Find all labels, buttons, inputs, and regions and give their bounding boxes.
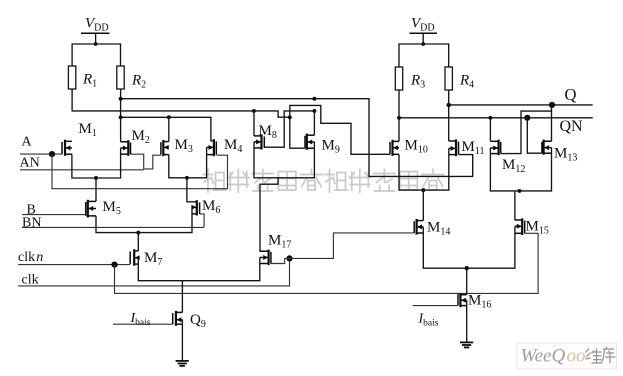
node: bus to M7 drain <box>136 231 140 235</box>
node: QN at R3/M10 <box>397 116 401 120</box>
wire: bus down to M7 drain <box>137 233 139 251</box>
svg-text:A: A <box>22 135 33 150</box>
resistor R2 <box>117 66 124 89</box>
transistor M17 <box>260 250 271 266</box>
transistor M2 <box>121 140 131 156</box>
wire: VDD2 stem <box>422 33 424 44</box>
wire: Ibais lead to Q9 gate <box>113 323 173 325</box>
wire: node L2 (M2 drain line) to M4 drain <box>121 117 214 141</box>
transistor M5 <box>86 200 96 218</box>
wire: M12/M13 source bus <box>490 148 551 191</box>
svg-text:BN: BN <box>22 216 41 231</box>
wire: Q9 drain riser <box>181 281 183 313</box>
wire: tail down to M6 drain <box>187 178 197 202</box>
wire: input B line to M5 gate <box>22 214 86 216</box>
wire: rail to R4 <box>448 43 450 67</box>
wire: M13 gate route to QN node <box>527 118 542 153</box>
wire: output Q line <box>449 104 593 106</box>
wire: M7/M17 source bus to Q9 <box>138 258 259 281</box>
transistor M3 <box>161 140 169 156</box>
wire: input AN line <box>20 169 144 171</box>
wire: BN riser to M6 gate lead <box>200 214 205 228</box>
resistor R3 <box>395 67 402 90</box>
wire: VDD1 rail <box>72 43 120 45</box>
wire: R3 down to M10 drain (QN node riser) <box>398 90 400 141</box>
transistor M7 <box>130 249 139 265</box>
wire: R1 to node L1 <box>71 89 73 112</box>
svg-text:clk: clk <box>18 250 35 265</box>
power VDD (right) <box>410 16 438 34</box>
node: M8 gate / M9 drain tie <box>312 109 316 113</box>
wire: R2 down to M2 drain (vertical through node dots) <box>120 89 122 142</box>
wire: R2 node line to second stage (M11 gate route) <box>121 99 473 177</box>
node: tail to M14 <box>421 188 425 192</box>
transistor M6 <box>191 200 199 215</box>
wire: output QN line <box>399 117 593 119</box>
transistor M12 <box>490 140 500 156</box>
wire: bus down to M17 drain (jog) <box>260 178 278 251</box>
node: VDD2 rail junction <box>421 42 425 46</box>
transistor M13 <box>542 140 552 155</box>
wire: VDD2 rail <box>399 43 449 45</box>
transistor M10 <box>390 140 399 156</box>
wire: M12 drain riser to QN <box>489 118 491 142</box>
svg-text:WeeQ: WeeQ <box>521 346 566 367</box>
wire: M10/M11 tail bus <box>399 148 449 190</box>
transistor M1 <box>62 140 72 156</box>
wire: M14/M15 source bus <box>423 226 515 268</box>
node: M9 drain / M8 gate tie on R2 line <box>312 97 316 101</box>
transistor M8 <box>254 134 264 149</box>
wire: rail to R3 <box>398 43 400 67</box>
transistor M14 <box>414 219 423 235</box>
wire: AN branch to M3 gate <box>144 155 161 169</box>
node: R2 line start <box>119 97 123 101</box>
svg-text:n: n <box>36 250 43 265</box>
transistor M11 <box>449 139 459 156</box>
wire: M8 drain riser <box>253 111 255 136</box>
transistor Q9 <box>173 311 183 326</box>
wire: M9 drain riser <box>313 111 315 135</box>
wire: tail down to M14 drain <box>422 190 424 221</box>
wire: clk to M14 gate <box>290 233 415 259</box>
svg-text:oo: oo <box>567 346 586 367</box>
svg-text:clk: clk <box>22 273 39 288</box>
wire: bus down to M16 drain <box>466 268 468 295</box>
node: A branch <box>49 151 55 157</box>
wire: clkn line to M7 gate <box>18 264 130 266</box>
node: Q to M13 drain <box>549 102 555 108</box>
wire: node L1 (R1/M1 drain bus) with jog down <box>72 111 290 117</box>
node: M8 drain on L1 <box>252 109 256 113</box>
node: L2 start on M2 drain vertical <box>119 115 123 119</box>
wire: rail to R2 <box>120 43 122 66</box>
wire: M8 gate up to R2 node stub <box>264 111 314 147</box>
node: QN to M13 gate <box>524 115 530 121</box>
wire: M8/M9 source bus <box>254 142 314 178</box>
node: cross-couple junction (L1 jog / M9 gate / M10 gate feed) <box>288 115 292 119</box>
node: VDD1 rail junction <box>94 42 98 46</box>
node: M12 drain on QN <box>488 116 492 120</box>
node: tail to M5 <box>94 176 98 180</box>
transistor M16 <box>458 293 467 307</box>
wire: rail to R1 <box>71 43 73 66</box>
wire: input BN line <box>22 226 204 228</box>
node: clkn branch <box>111 262 117 268</box>
svg-text:AN: AN <box>20 156 40 171</box>
node: tail to M6 <box>185 176 189 180</box>
wire: clk to M17 gate <box>271 258 290 263</box>
wire: clkn under-route to M15 gate <box>115 233 539 293</box>
transistor M15 <box>515 218 525 235</box>
transistor M4 <box>207 139 217 156</box>
node: bus to M15 drain <box>518 189 522 193</box>
wire: M3 drain riser <box>168 117 170 141</box>
wire: M12 gate route to Q node <box>501 111 552 154</box>
wire: VDD1 stem <box>95 33 97 44</box>
wire: AN riser to M2 gate lead <box>131 154 144 170</box>
wire: junction up and over to M10 gate <box>290 105 390 154</box>
node: M3 drain on L2 <box>167 115 171 119</box>
node: clk branch (M17/M14 gates) <box>286 255 292 261</box>
resistor R4 <box>445 67 452 90</box>
svg-text:Q: Q <box>565 85 577 104</box>
wire: input A line to M1 gate <box>20 153 62 155</box>
transistor M9 <box>305 134 314 150</box>
node: Q at R4/M11 <box>447 103 451 107</box>
wire: tail down to M5 drain <box>95 178 97 201</box>
watermark: company text <box>204 170 444 193</box>
power VDD (left) <box>81 16 110 34</box>
ground (M16 source) <box>460 342 473 347</box>
wire: M16 source to ground <box>466 300 468 342</box>
wire: Q9 source to ground <box>181 320 183 361</box>
node: bus to M16 drain <box>465 266 469 270</box>
wire: bus down to M15 drain <box>514 191 516 220</box>
wire: M3/M4 tail bus <box>169 147 207 177</box>
wire: clk line <box>18 258 289 286</box>
resistor R1 <box>68 66 75 89</box>
wire: R4 down to M11 drain (Q node riser) <box>448 90 450 141</box>
wire: M13 drain riser to Q <box>551 105 553 141</box>
svg-text:QN: QN <box>560 118 584 135</box>
wire: junction down to M9 gate <box>290 117 305 148</box>
wire: A routed down/right to M4 gate <box>52 154 228 189</box>
watermark: WeeQoo box <box>517 343 617 369</box>
wire: M1/M2 tail bus <box>72 148 121 178</box>
ground (Q9 source) <box>176 361 189 366</box>
wire: M5/M6 source bus <box>96 207 192 232</box>
wire: Ibais lead to M16 gate <box>413 305 458 307</box>
